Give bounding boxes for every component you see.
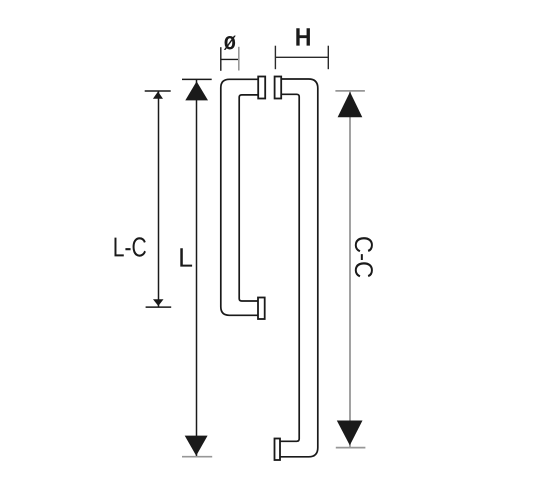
H dimension line xyxy=(275,46,328,69)
L bottom tick xyxy=(182,456,212,458)
L top arrow xyxy=(185,81,208,100)
L top tick xyxy=(182,78,212,80)
left handle inner contour xyxy=(239,95,258,301)
C-C dimension line xyxy=(335,91,365,448)
label C-C (rotated) xyxy=(355,237,373,277)
right handle bottom post xyxy=(275,439,281,461)
left handle bottom post xyxy=(258,298,265,320)
right handle outer contour xyxy=(280,79,318,457)
C-C bottom arrow xyxy=(337,421,363,446)
L-C dimension line xyxy=(145,91,172,307)
diameter label ø xyxy=(224,36,236,50)
label L-C xyxy=(115,237,146,256)
right handle inner contour xyxy=(280,94,299,441)
label H xyxy=(296,28,310,45)
right handle top post xyxy=(275,77,282,99)
left handle top post xyxy=(258,77,265,99)
L-C bottom arrow xyxy=(153,299,164,306)
diameter dimension right tick xyxy=(238,47,240,71)
diameter dimension line xyxy=(221,47,239,71)
C-C top arrow xyxy=(338,92,363,117)
L dimension line xyxy=(196,79,198,456)
left handle outer contour xyxy=(221,79,259,315)
L-C top arrow xyxy=(153,92,163,99)
L bottom arrow xyxy=(185,436,208,456)
label L xyxy=(180,248,192,266)
